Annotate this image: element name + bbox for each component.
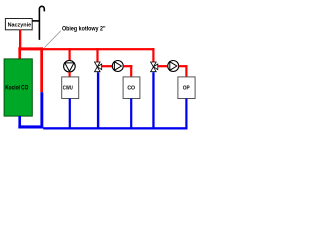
- pump P2 (CO, flow right): [112, 61, 123, 72]
- wire: red stub pump to CWU box: [69, 72, 71, 77]
- wire: red supply main thin segment: [43, 48, 155, 50]
- wire: blue boiler return drop: [18, 116, 21, 129]
- wire: red drop from vessel to supply main: [19, 30, 21, 48]
- wire: red supply main thick segment (boiler circuit): [18, 47, 43, 50]
- wire: red main corner drop to OP valve: [152, 48, 154, 62]
- wire: blue return main thick segment: [18, 125, 43, 128]
- svg-text:OP: OP: [183, 85, 190, 91]
- CO box: [123, 77, 140, 99]
- svg-text:Naczynie: Naczynie: [8, 22, 32, 28]
- wire: bypass vertical blue lower part: [40, 92, 43, 128]
- wire: blue return below OP valve: [152, 72, 154, 129]
- 3-way valve V1 (CO circuit): [95, 62, 102, 72]
- wire: blue return from CO box: [130, 98, 132, 129]
- 3-way valve V2 (OP circuit): [151, 62, 158, 72]
- boiler Kociol CO: [4, 59, 32, 116]
- CWU box: [62, 77, 79, 99]
- OP box: [178, 77, 195, 99]
- wire: blue return below CO valve: [97, 72, 99, 129]
- wire: red corner down into OP box: [185, 65, 187, 77]
- wire: bypass vertical red upper part: [40, 47, 43, 92]
- wire: blue return main thin segment: [43, 127, 187, 129]
- wire: red drop to CO valve: [96, 48, 98, 62]
- wire: red valve to CO pump: [102, 65, 112, 67]
- leader line to label: [44, 31, 60, 48]
- pump P1 (CWU, flow down): [64, 60, 76, 72]
- wire: red boiler supply drop into boiler top: [18, 47, 21, 59]
- vent pipe with hook top: [39, 6, 44, 40]
- wire: red valve to OP pump: [158, 65, 168, 67]
- svg-text:Obieg kotłowy 2": Obieg kotłowy 2": [62, 26, 106, 33]
- expansion vessel box (Naczynie): [5, 19, 32, 30]
- pump P3 (OP, flow right): [168, 61, 179, 72]
- svg-text:Kocioł CO: Kocioł CO: [5, 86, 28, 92]
- wire: red corner down into CO box: [130, 65, 132, 77]
- svg-text:CWU: CWU: [63, 85, 73, 91]
- wire: red OP pump to corner: [179, 65, 188, 67]
- wire: blue return from CWU box: [69, 98, 71, 129]
- wire: black connector vessel to vent pipe: [32, 20, 39, 22]
- wire: blue return from OP box: [185, 98, 187, 129]
- wire: red CO pump to corner: [123, 65, 132, 67]
- wire: red drop to CWU pump: [69, 48, 71, 61]
- svg-text:CO: CO: [127, 85, 135, 91]
